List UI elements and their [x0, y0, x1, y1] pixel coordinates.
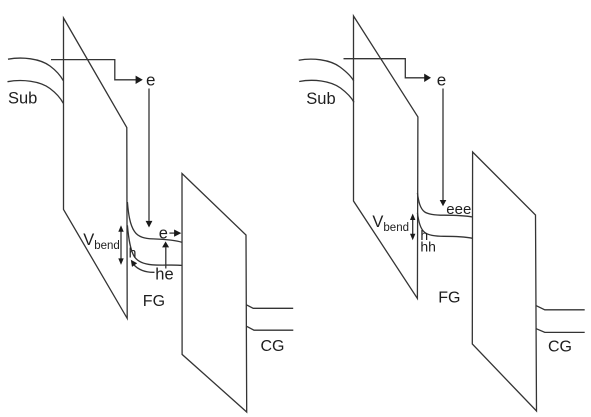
left FG valence band edge curve	[127, 225, 181, 265]
left long arrow head	[146, 221, 153, 228]
left FG conduction band edge curve	[127, 202, 181, 242]
right CG lower band line	[536, 329, 585, 333]
left substrate valence-band arc	[8, 81, 64, 104]
right substrate valence-band arc	[299, 80, 354, 102]
right substrate conduction-band arc	[299, 59, 354, 81]
left small e right-arrow shaft	[169, 232, 174, 234]
right Vbend bottom arrowhead	[410, 234, 415, 241]
svg-text:FG: FG	[438, 290, 460, 307]
svg-text:e: e	[159, 225, 168, 243]
left he up arrowhead	[162, 241, 169, 247]
right CG upper band line	[536, 306, 585, 310]
left electron energy step line	[51, 60, 136, 80]
svg-text:Vbend: Vbend	[83, 231, 120, 252]
right tunnel-oxide barrier band (parallelogram)	[354, 16, 418, 299]
svg-text:e: e	[437, 71, 446, 90]
svg-text:FG: FG	[143, 293, 165, 310]
left small e right arrowhead	[174, 230, 181, 237]
right long electron injection arrow	[442, 89, 444, 201]
left CG upper band line	[246, 305, 293, 309]
left interpoly-oxide barrier band (parallelogram)	[182, 174, 247, 413]
svg-text:CG: CG	[548, 338, 572, 355]
left step arrowhead	[136, 76, 143, 84]
left substrate conduction-band arc	[8, 58, 63, 81]
left Vbend top arrowhead	[118, 225, 123, 232]
svg-text:eee: eee	[446, 201, 471, 218]
left CG lower band line	[247, 326, 294, 330]
svg-text:he: he	[155, 266, 173, 284]
svg-text:Sub: Sub	[306, 90, 335, 108]
right long arrow head	[440, 200, 447, 206]
right step arrowhead	[424, 74, 431, 82]
svg-text:CG: CG	[261, 338, 285, 355]
left curved hole arrow	[133, 264, 154, 272]
left tunnel-oxide barrier band (parallelogram)	[64, 18, 128, 318]
left Vbend double arrow shaft	[120, 232, 122, 259]
right electron energy step line	[344, 59, 425, 78]
right interpoly-oxide barrier band (parallelogram)	[472, 152, 536, 411]
left Vbend bottom arrowhead	[118, 258, 123, 265]
left long electron injection arrow	[148, 89, 150, 221]
svg-text:Sub: Sub	[8, 90, 37, 108]
right Vbend top arrowhead	[410, 214, 415, 221]
left curved arrowhead	[131, 260, 137, 267]
svg-text:hh: hh	[420, 238, 436, 254]
svg-text:h: h	[129, 244, 137, 260]
svg-text:Vbend: Vbend	[372, 213, 409, 234]
left he up arrow shaft	[165, 247, 167, 268]
svg-text:e: e	[146, 71, 155, 90]
right FG valence band edge curve	[417, 213, 472, 239]
right Vbend double arrow shaft	[412, 220, 414, 234]
right FG conduction band edge curve	[417, 193, 472, 217]
